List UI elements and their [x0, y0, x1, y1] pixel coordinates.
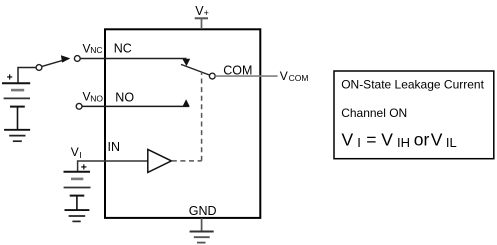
svg-text:V: V — [280, 69, 288, 83]
svg-text:V: V — [71, 145, 79, 159]
switch S1 blade — [42, 59, 69, 67]
ground G1 — [4, 130, 30, 141]
svg-text:IN: IN — [108, 140, 121, 154]
ground G2 — [65, 210, 90, 221]
node COM — [209, 73, 215, 79]
note formula VI = VIH or VIL — [342, 130, 457, 150]
label V+ — [195, 4, 209, 18]
switch S1 pole — [36, 65, 42, 71]
note box — [334, 71, 494, 159]
svg-text:V: V — [381, 130, 393, 150]
battery B2 — [64, 172, 91, 196]
wire GND stub — [201, 218, 203, 231]
svg-text:NO: NO — [115, 90, 134, 104]
switch S2 blade — [181, 64, 210, 75]
switch S2 arrowhead NC — [182, 59, 190, 66]
svg-text:=: = — [366, 130, 376, 150]
wire battery B1 to switch — [18, 68, 36, 84]
wire battery B2 to ground — [76, 196, 78, 210]
battery B1 — [2, 83, 30, 106]
V+ supply bar — [195, 17, 208, 19]
svg-text:V: V — [342, 130, 354, 150]
svg-text:+: + — [204, 8, 209, 18]
svg-text:NC: NC — [90, 45, 102, 55]
svg-text:IL: IL — [446, 135, 457, 150]
svg-text:COM: COM — [223, 63, 252, 77]
wire battery B1 to ground — [17, 107, 19, 129]
wire VNC to NC pin — [80, 58, 186, 60]
svg-text:COM: COM — [289, 73, 309, 83]
switch S2 contact arrowhead NO — [183, 99, 190, 106]
svg-text:Channel ON: Channel ON — [341, 106, 407, 120]
svg-text:GND: GND — [189, 204, 217, 218]
svg-text:NO: NO — [90, 93, 103, 103]
svg-text:I: I — [79, 150, 81, 160]
svg-text:IH: IH — [397, 135, 410, 150]
wire VNO to NO pin — [82, 105, 189, 107]
svg-text:NC: NC — [114, 42, 132, 56]
ground G3 — [190, 232, 214, 243]
wire dashed control vertical — [201, 72, 203, 161]
wire VI source to IN pin — [78, 161, 148, 172]
svg-text:V: V — [431, 130, 443, 150]
buffer U2 — [148, 149, 172, 172]
label VNO — [83, 90, 104, 104]
node VNO terminal — [76, 103, 82, 109]
svg-text:or: or — [414, 130, 430, 150]
node VNC terminal — [74, 56, 80, 62]
wire COM to VCOM — [215, 75, 277, 77]
svg-text:+: + — [7, 72, 13, 84]
IC box U1 — [105, 29, 260, 218]
wire V+ stub — [201, 18, 203, 29]
svg-text:ON-State Leakage Current: ON-State Leakage Current — [341, 77, 484, 91]
label VI — [71, 145, 82, 160]
wire dashed control horizontal — [172, 160, 202, 162]
label VCOM — [280, 69, 309, 83]
switch S1 arrowhead — [61, 55, 70, 62]
label VNC — [83, 41, 103, 55]
svg-text:I: I — [357, 135, 361, 150]
